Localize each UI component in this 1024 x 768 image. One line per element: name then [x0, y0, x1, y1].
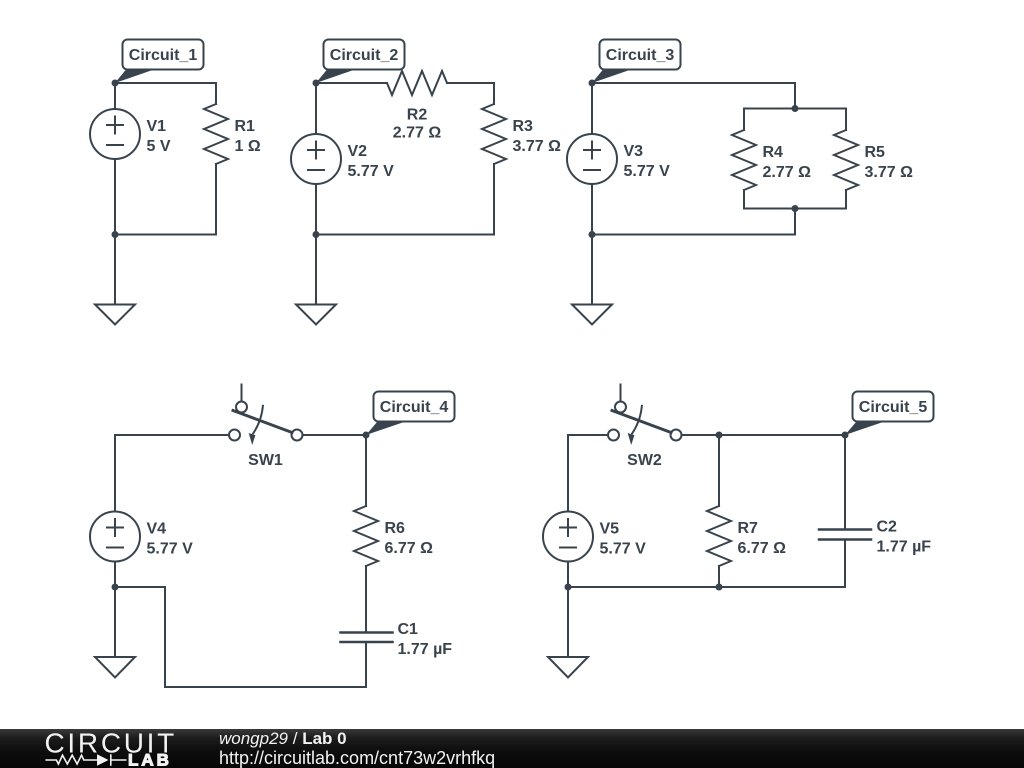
svg-text:2.77 Ω: 2.77 Ω: [393, 125, 442, 142]
svg-text:SW1: SW1: [248, 452, 283, 469]
svg-text:5.77 V: 5.77 V: [147, 541, 194, 558]
svg-text:5.77 V: 5.77 V: [348, 163, 395, 180]
svg-text:3.77 Ω: 3.77 Ω: [865, 164, 914, 181]
svg-text:V1: V1: [147, 118, 167, 135]
svg-text:1.77 µF: 1.77 µF: [877, 539, 932, 556]
svg-text:V4: V4: [147, 521, 167, 538]
svg-text:Circuit_1: Circuit_1: [129, 47, 198, 64]
svg-text:R6: R6: [385, 520, 406, 537]
svg-text:R4: R4: [763, 144, 784, 161]
svg-text:2.77 Ω: 2.77 Ω: [763, 164, 812, 181]
svg-text:R1: R1: [235, 118, 256, 135]
svg-text:5.77 V: 5.77 V: [624, 163, 671, 180]
svg-text:3.77 Ω: 3.77 Ω: [513, 138, 562, 155]
svg-text:Circuit_4: Circuit_4: [380, 399, 449, 416]
svg-text:SW2: SW2: [627, 452, 662, 469]
svg-text:C2: C2: [877, 519, 898, 536]
svg-text:LAB: LAB: [128, 751, 172, 768]
svg-text:5.77 V: 5.77 V: [600, 541, 647, 558]
svg-text:Circuit_5: Circuit_5: [859, 399, 928, 416]
svg-text:wongp29 / Lab 0: wongp29 / Lab 0: [219, 729, 347, 748]
svg-text:R2: R2: [407, 107, 428, 124]
svg-text:R3: R3: [513, 118, 534, 135]
svg-text:R5: R5: [865, 144, 886, 161]
svg-text:V3: V3: [624, 143, 644, 160]
svg-text:6.77 Ω: 6.77 Ω: [738, 540, 787, 557]
svg-text:R7: R7: [738, 520, 759, 537]
svg-text:Circuit_2: Circuit_2: [330, 47, 399, 64]
svg-text:V5: V5: [600, 521, 620, 538]
svg-text:6.77 Ω: 6.77 Ω: [385, 540, 434, 557]
svg-text:5 V: 5 V: [147, 138, 171, 155]
svg-text:1.77 µF: 1.77 µF: [398, 641, 453, 658]
svg-text:1 Ω: 1 Ω: [235, 138, 261, 155]
svg-text:Circuit_3: Circuit_3: [606, 47, 675, 64]
svg-text:http://circuitlab.com/cnt73w2v: http://circuitlab.com/cnt73w2vrhfkq: [219, 748, 495, 768]
svg-text:C1: C1: [398, 621, 419, 638]
svg-text:V2: V2: [348, 143, 368, 160]
